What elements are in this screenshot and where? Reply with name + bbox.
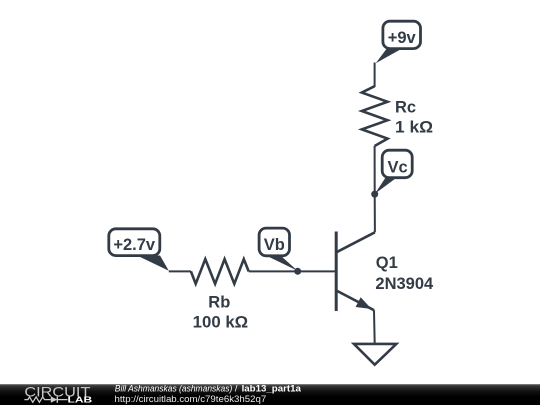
voltage label +2.7v — [109, 229, 169, 271]
svg-text:Bill Ashmanskas (ashmanskas): Bill Ashmanskas (ashmanskas) — [115, 384, 233, 394]
resistor Rc — [362, 86, 388, 146]
svg-text:Vb: Vb — [264, 236, 285, 254]
svg-text:Vc: Vc — [388, 158, 408, 176]
wire from +9v tail to resistor Rc top — [374, 63, 376, 88]
svg-text:+2.7v: +2.7v — [113, 236, 156, 254]
wire emitter to ground — [373, 310, 376, 344]
footer bar — [0, 384, 540, 405]
junction dot node Vc — [371, 191, 378, 198]
ground — [354, 344, 396, 365]
node label Vc — [375, 150, 412, 194]
svg-text:lab13_part1a: lab13_part1a — [242, 384, 302, 395]
transistor Q1 collector lead — [336, 232, 375, 252]
transistor Q1 base bar — [335, 232, 338, 312]
transistor Q1 emitter arrow — [356, 297, 372, 309]
svg-text:LAB: LAB — [68, 395, 93, 405]
voltage label +9v — [376, 21, 421, 63]
svg-text:Q1: Q1 — [376, 254, 398, 272]
wire from Rb to node Vb — [249, 270, 298, 272]
svg-text:http://circuitlab.com/c79te6k3: http://circuitlab.com/c79te6k3h52q7 — [115, 394, 267, 404]
logo wire and resistor squiggle — [24, 397, 50, 402]
wire from node Vc to collector — [374, 194, 376, 232]
logo diode — [51, 396, 58, 402]
svg-text:100 kΩ: 100 kΩ — [193, 313, 249, 331]
wire from Rc bottom to node Vc — [374, 146, 376, 194]
junction dot node Vb — [294, 268, 301, 275]
transistor Q1 emitter lead — [336, 291, 374, 311]
resistor Rb — [191, 259, 249, 284]
node label Vb — [259, 228, 297, 271]
svg-text:Rb: Rb — [208, 293, 230, 311]
wire base wire into Q1 — [298, 270, 337, 272]
wire from +2.7v tail to Rb — [169, 270, 191, 272]
svg-text:Rc: Rc — [395, 99, 416, 117]
svg-text:2N3904: 2N3904 — [375, 275, 434, 293]
svg-text:1 kΩ: 1 kΩ — [395, 118, 433, 136]
svg-text:+9v: +9v — [388, 29, 417, 47]
